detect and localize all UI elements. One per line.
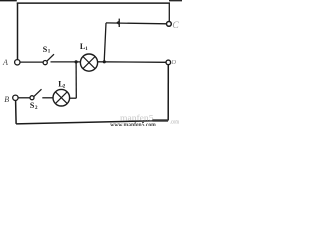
svg-text:www.manfen5.com: www.manfen5.com bbox=[110, 120, 156, 126]
svg-text:A: A bbox=[2, 58, 8, 67]
svg-text:B: B bbox=[4, 95, 9, 104]
svg-text:.com: .com bbox=[170, 119, 179, 126]
svg-text:D: D bbox=[170, 59, 176, 66]
svg-text:C: C bbox=[172, 21, 179, 31]
